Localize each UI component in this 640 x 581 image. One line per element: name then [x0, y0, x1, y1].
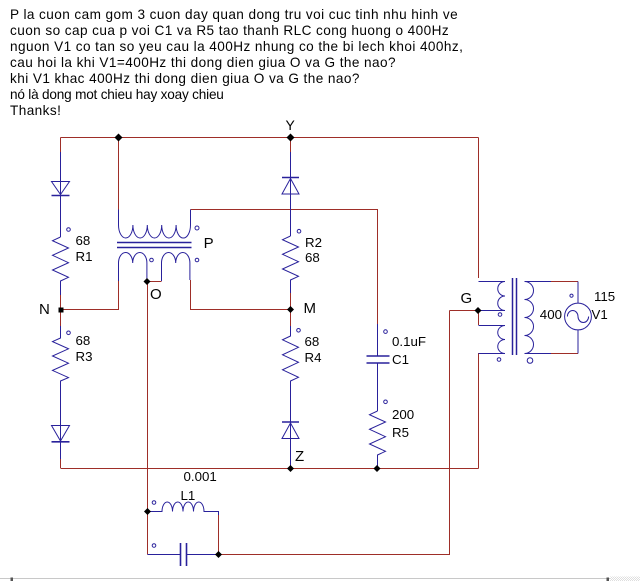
node label Z: [295, 448, 304, 465]
label R5 value 200: [392, 407, 414, 422]
label L1: [181, 488, 196, 503]
junction node O: [144, 278, 151, 285]
pin dot V1: [570, 294, 573, 297]
pin dot P primary: [195, 226, 199, 230]
label L1 value 0.001: [184, 469, 217, 484]
wire node M down to R4: [290, 310, 292, 327]
pin dot C2: [152, 544, 156, 548]
wire bottom diode D2 to bottom rail: [60, 459, 62, 468]
inductor L1: [148, 502, 219, 515]
wire bottom rail: [61, 468, 479, 470]
label C1 value 0.1uF: [392, 334, 426, 349]
label R3: [76, 349, 93, 364]
transformer T2 left winding lower: [479, 326, 506, 354]
label R3 value 68: [76, 333, 91, 348]
label R4: [305, 350, 322, 365]
scrollbar corner dither: [610, 577, 640, 581]
wire R2 bottom to node M: [290, 293, 292, 310]
transformer T2 core: [513, 278, 517, 355]
pin dot T2 left lower: [497, 358, 501, 362]
label P: [204, 235, 214, 252]
label R5: [392, 425, 409, 440]
pin dot T2 right: [527, 358, 533, 364]
resistor R5: [370, 411, 386, 468]
junction node Y top: [287, 134, 295, 142]
AC source V1: [565, 282, 592, 354]
pin dot P secondary 1: [150, 258, 154, 262]
wire Y junction down to diode D3: [290, 138, 292, 153]
wire P secondary right down to node M: [191, 280, 291, 310]
junction LC right: [215, 551, 222, 558]
transformer T2 left winding upper: [479, 282, 506, 311]
pin dot C1: [384, 330, 388, 334]
resistor R1: [53, 237, 69, 295]
junction node G: [475, 307, 482, 314]
pin dot R1: [67, 228, 71, 232]
resistor R2: [283, 236, 299, 293]
node label O: [150, 286, 162, 303]
wire node G branch down: [478, 311, 480, 326]
wire P primary right to C1 column: [191, 210, 378, 325]
pin dot T2 left upper: [498, 313, 502, 317]
wire left column top: [60, 138, 62, 153]
diode D2 (left bottom, pointing down): [52, 426, 70, 460]
junction node M: [287, 306, 294, 313]
label R2 value 68: [305, 250, 320, 265]
scrollbar: [0, 578, 610, 581]
junction L1 left: [144, 508, 151, 515]
transformer P secondary winding 2: [162, 253, 190, 282]
label R1 value 68: [76, 233, 91, 248]
transformer T2 right winding: [525, 282, 552, 354]
resistor R3: [53, 326, 69, 441]
transformer P secondary winding 1: [119, 252, 147, 281]
wire node O down long vertical: [147, 282, 149, 512]
pin dot P secondary 2: [195, 258, 199, 262]
junction P primary left: [115, 134, 123, 142]
label R1: [76, 249, 93, 264]
wire from G net down to bottom LC: [219, 311, 450, 555]
pin dot R3: [67, 331, 71, 335]
wire V1 bottom connection: [551, 353, 578, 355]
pin dot R2: [297, 229, 301, 233]
junction R5 bottom: [374, 465, 381, 472]
wire bottom rail to T2 lower terminal: [478, 353, 480, 469]
resistor R4: [283, 326, 299, 438]
label V1 value 400: [540, 307, 562, 322]
node label G: [461, 290, 473, 307]
pin dot L1: [152, 501, 156, 505]
node label M: [304, 300, 317, 317]
label C1: [392, 352, 409, 367]
wire from top to transformer P primary left: [118, 138, 120, 210]
pin dot R5: [384, 400, 388, 404]
pin dot R4: [297, 329, 301, 333]
diode D3 (middle top, pointing up): [282, 152, 299, 236]
label R2: [305, 235, 322, 250]
junction node N (square): [59, 308, 64, 313]
transformer P primary winding: [119, 210, 191, 239]
wire node N to P secondary left: [61, 281, 119, 310]
wire node N down to R3: [60, 310, 62, 327]
capacitor C1: [367, 324, 390, 411]
junction node Z: [287, 465, 294, 472]
label R4 value 68: [305, 334, 320, 349]
label V1: [592, 307, 608, 322]
node label Y: [286, 117, 295, 133]
diode D1 (left top, pointing down): [52, 152, 70, 237]
wire node G to left: [450, 310, 478, 312]
wire top right down to T2 upper terminal: [478, 138, 480, 279]
capacitor C2 bottom: [148, 543, 219, 566]
label V1 value 115: [594, 289, 615, 304]
diode D4 (middle bottom, pointing up): [282, 422, 299, 468]
wire node O stub to second secondary winding: [147, 281, 162, 283]
wire L1 left node down to capacitor lead: [147, 512, 149, 555]
transformer P core: [117, 243, 192, 248]
wire L1 right lead down to capacitor node: [218, 515, 220, 555]
wire V1 top connection: [551, 281, 578, 283]
wire top horizontal Y net: [61, 137, 479, 139]
node label N: [39, 301, 50, 318]
wire R1 bottom to node N: [60, 295, 62, 310]
